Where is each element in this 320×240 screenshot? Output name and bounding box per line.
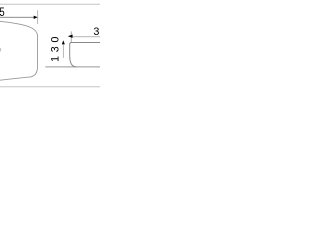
arrowhead right (top view width dim) bbox=[34, 16, 38, 19]
svg-text:3: 3 bbox=[93, 26, 99, 38]
basin profile side view bbox=[70, 43, 100, 67]
counter/base line side view bbox=[45, 66, 100, 68]
dimension line top view width bbox=[0, 16, 34, 18]
arrowhead up (height dim 130) bbox=[62, 40, 65, 44]
dimension line depth bbox=[72, 36, 100, 38]
extension line at profile left edge bbox=[70, 31, 72, 42]
top separator rule bbox=[0, 3, 100, 5]
vertical dimension line 130 bbox=[62, 44, 64, 58]
arrowhead left (depth dim) bbox=[68, 35, 73, 38]
bottom separator rule bbox=[0, 86, 100, 88]
page background bbox=[0, 0, 100, 100]
svg-text:130: 130 bbox=[49, 33, 61, 62]
drain hole arc (cut off at left) bbox=[0, 48, 1, 52]
basin outline top view (cut off at left) bbox=[0, 21, 38, 80]
extension line at basin right edge bbox=[37, 10, 39, 24]
